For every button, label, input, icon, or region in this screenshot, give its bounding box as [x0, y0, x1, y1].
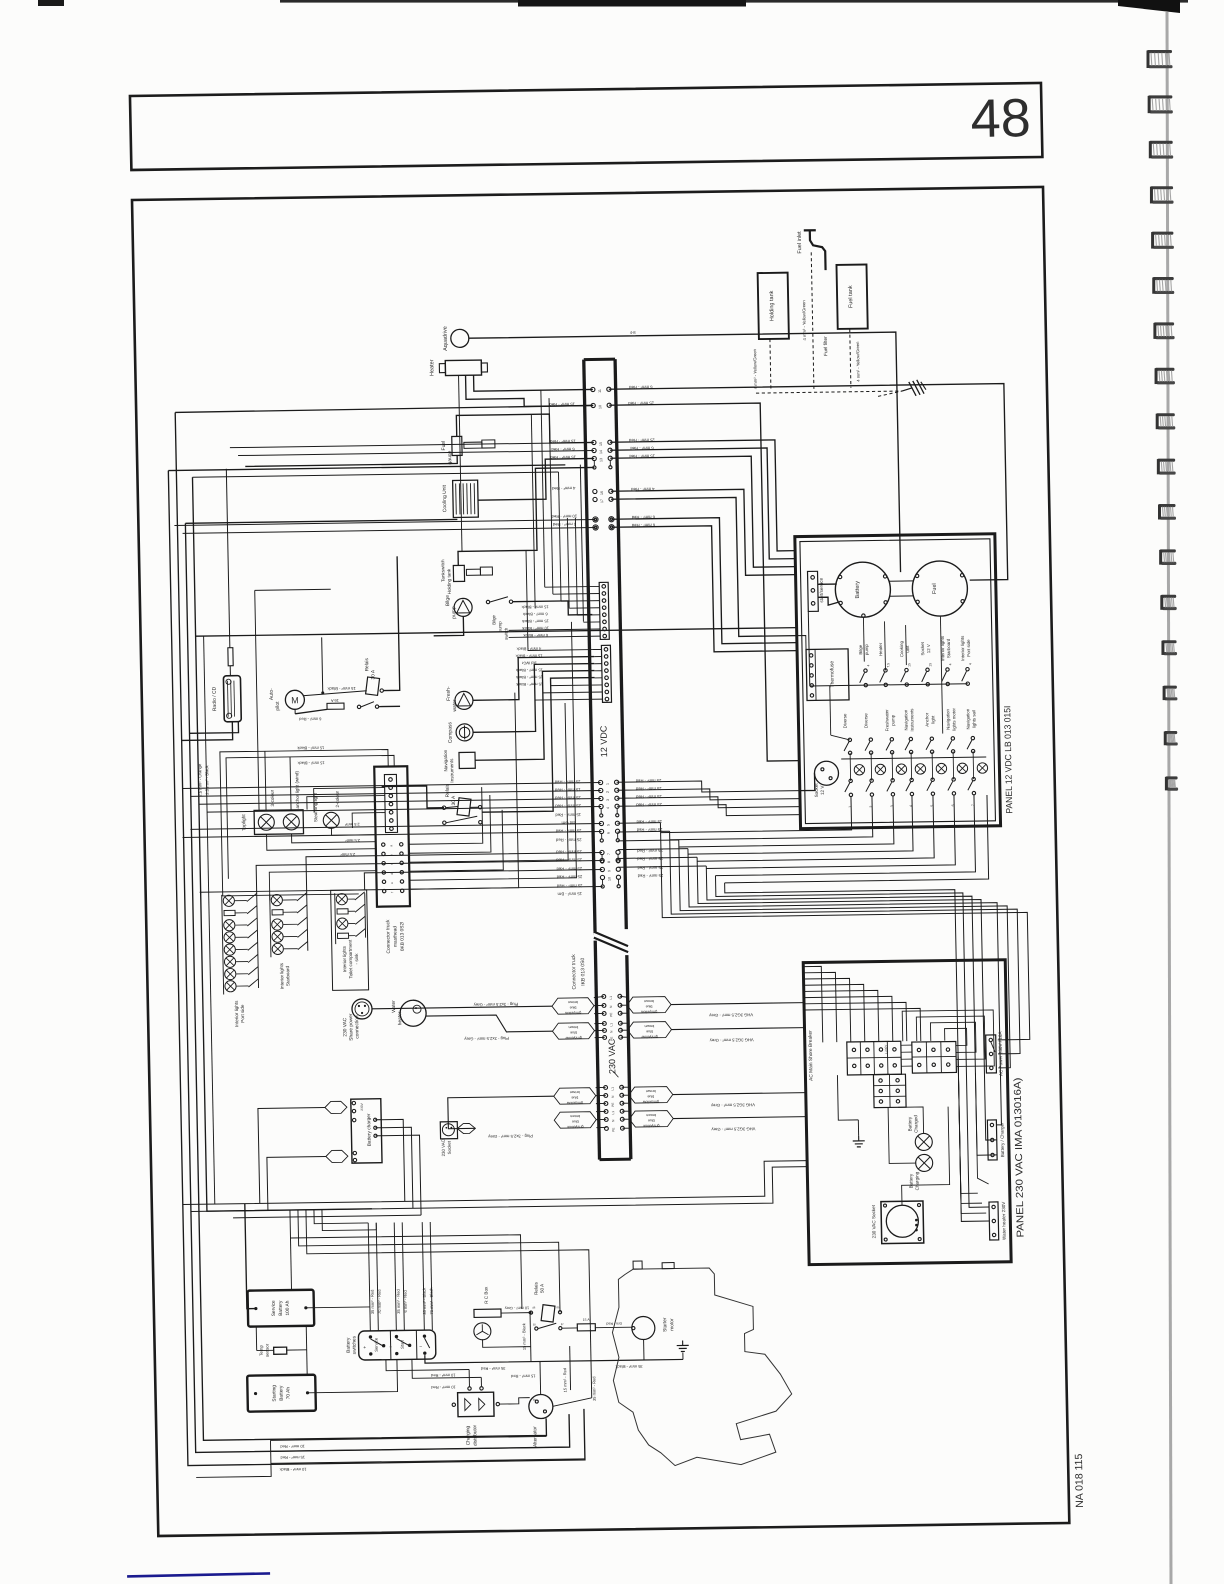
svg-text:230 VAC: 230 VAC [342, 1017, 348, 1036]
svg-text:L 230V: L 230V [884, 1045, 888, 1054]
svg-text:15 mm² - Black: 15 mm² - Black [516, 682, 543, 687]
panel upper switch bus [810, 684, 968, 686]
wire freshwater to strip [472, 657, 595, 701]
svg-text:blue: blue [571, 1095, 578, 1099]
svg-text:35 mm² - Red: 35 mm² - Red [481, 1366, 506, 1371]
svg-text:brown: brown [568, 1025, 578, 1029]
svg-text:70 Ah: 70 Ah [285, 1387, 291, 1400]
svg-text:Interior lights: Interior lights [279, 962, 285, 989]
wire bus16 right [611, 489, 796, 578]
autopilot switch [357, 705, 360, 708]
autopilot motor [285, 690, 304, 709]
svg-text:Fresh-: Fresh- [446, 686, 452, 701]
wire charger left 1 [258, 1107, 327, 1203]
relay 50A switch [535, 1327, 538, 1330]
wires socket panel [900, 1107, 950, 1206]
svg-text:Compass: Compass [447, 722, 453, 744]
svg-text:Battery: Battery [908, 1173, 913, 1188]
svg-text:Plug - 3x2.5 mm² - Grey: Plug - 3x2.5 mm² - Grey [463, 1036, 509, 1042]
temp sensor [274, 1347, 287, 1354]
masthead connector box [374, 766, 410, 906]
hex cable bus upper right 2 [627, 1022, 671, 1039]
svg-text:grn/yellow: grn/yellow [641, 1035, 658, 1039]
svg-text:12 V: 12 V [820, 785, 825, 795]
battery switches box [358, 1330, 436, 1360]
svg-text:230 VAC: 230 VAC [607, 1038, 618, 1074]
wire bus10 right bundle [609, 403, 799, 764]
wire row y524 tank [185, 519, 457, 523]
svg-text:6 mm² - Red: 6 mm² - Red [551, 447, 575, 452]
svg-text:VHG 3G2.5 mm² - Grey: VHG 3G2.5 mm² - Grey [711, 1126, 756, 1132]
svg-text:M: M [291, 695, 299, 705]
svg-text:16 A: 16 A [331, 698, 339, 703]
svg-text:5: 5 [930, 805, 934, 807]
svg-text:Freshwater: Freshwater [884, 709, 889, 732]
svg-text:masthead: masthead [392, 926, 398, 947]
svg-text:Navigation: Navigation [965, 708, 970, 729]
svg-text:2: 2 [869, 806, 873, 808]
bus break symbol [594, 931, 628, 952]
svg-text:std Grn: std Grn [561, 820, 575, 825]
wire heater to bus 11 [474, 373, 593, 391]
svg-text:15: 15 [907, 663, 911, 667]
svg-text:brown: brown [568, 1000, 578, 1004]
hex cable charger 1 [325, 1101, 347, 1113]
wire gauges link [889, 580, 914, 582]
svg-text:+: + [363, 1345, 366, 1351]
svg-text:15 mm² - Black: 15 mm² - Black [297, 745, 324, 750]
wire relay lower left [382, 786, 444, 809]
bus terminals lower [598, 780, 602, 784]
socket 230VAC panel [881, 1201, 924, 1244]
engine top notches [633, 1261, 642, 1269]
wire hex right 2 to panel [671, 1028, 804, 1030]
svg-text:Cooling Unit: Cooling Unit [442, 484, 449, 512]
terminal strip B [912, 1041, 957, 1073]
svg-text:1: 1 [848, 806, 852, 808]
diagram border frame [132, 187, 1069, 1536]
wire row n7 to starboard lights [306, 852, 603, 893]
wire socket feed [799, 773, 814, 790]
engine room fan [474, 1323, 491, 1340]
wire cooling unit to bus [477, 458, 595, 500]
wire autopilot bottom [294, 710, 296, 714]
wire water heater to bus hex [426, 1014, 552, 1033]
svg-text:Starboard: Starboard [285, 965, 290, 986]
svg-text:1: 1 [606, 783, 610, 785]
svg-text:10: 10 [607, 877, 611, 881]
wire bus13 right [610, 456, 795, 570]
svg-text:4: 4 [968, 663, 972, 665]
water heater [400, 1000, 427, 1026]
engine ground [682, 1340, 684, 1345]
steaming light lamp [323, 812, 339, 828]
wire RC box [501, 1312, 530, 1314]
tank switch holding tank [453, 565, 464, 581]
wire selector to battery gauge [818, 583, 837, 585]
hex cable bus lower left 1 [554, 1088, 596, 1105]
svg-text:std WGr: std WGr [521, 661, 536, 666]
svg-text:Relais: Relais [364, 657, 370, 671]
hex cable bus upper right 1 [627, 997, 671, 1014]
svg-text:10 mm² - Black: 10 mm² - Black [522, 626, 549, 631]
wire compass to strip [471, 664, 595, 733]
svg-text:Service: Service [271, 1300, 277, 1316]
wire masthead to right 3 [406, 693, 519, 890]
fuel hose dashed fuel inlet down [811, 252, 814, 390]
bus 230VAC column [595, 941, 599, 1160]
svg-text:NA 018 115: NA 018 115 [1073, 1453, 1086, 1507]
svg-text:Navigation: Navigation [443, 749, 448, 771]
svg-text:Interior lights: Interior lights [342, 945, 348, 972]
wire bilge switch to strip [513, 601, 592, 616]
wires lamps to masthead [267, 833, 376, 851]
aquadrive [451, 329, 469, 347]
svg-text:brown: brown [646, 1113, 656, 1117]
svg-text:Heater: Heater [429, 359, 435, 376]
vertical feeds to strip1 [541, 390, 545, 587]
svg-text:11: 11 [598, 389, 602, 393]
hex cable charger 2 [326, 1150, 348, 1162]
svg-text:7: 7 [971, 804, 975, 806]
svg-text:Connector truck: Connector truck [571, 954, 578, 990]
terminal strip C [873, 1074, 906, 1107]
fuse 16A autopilot [327, 703, 344, 709]
svg-text:7.5: 7.5 [886, 663, 890, 668]
svg-text:Bilge: Bilge [445, 595, 451, 606]
hex cable socket [457, 1123, 475, 1133]
interior lights feed wires [222, 894, 359, 896]
svg-text:2: 2 [606, 791, 610, 793]
wire hex lower right 1 to panel [673, 1093, 806, 1095]
wire row y478 [192, 472, 558, 477]
svg-text:6 mm² - Black: 6 mm² - Black [523, 612, 548, 617]
service battery [248, 1290, 315, 1327]
svg-text:15 mm² - Black: 15 mm² - Black [522, 619, 549, 624]
svg-text:Holding tank: Holding tank [446, 568, 452, 594]
svg-text:35 mm² - Black: 35 mm² - Black [616, 1364, 643, 1369]
wire heater aux down [459, 375, 462, 551]
water heater strip [989, 1202, 999, 1240]
svg-text:Socket: Socket [920, 641, 925, 655]
svg-text:B+: B+ [533, 1398, 537, 1402]
svg-text:brown: brown [646, 1089, 656, 1093]
svg-text:distributor: distributor [472, 1424, 478, 1446]
svg-text:4 mm² - Yellow/Green: 4 mm² - Yellow/Green [855, 341, 861, 382]
scanner top edge marks [38, 0, 64, 6]
fuel hose dashed fuel tank down [850, 329, 851, 388]
toplight lamp [258, 814, 274, 830]
wire hex lower left 2 to socket [475, 1120, 554, 1128]
bus terminals double pair [593, 517, 598, 522]
svg-text:15 mm² - Red: 15 mm² - Red [554, 787, 580, 792]
svg-text:switches: switches [351, 1335, 357, 1354]
svg-text:12 VDC: 12 VDC [598, 725, 609, 757]
radio/CD [223, 676, 241, 722]
svg-text:grn/yellow: grn/yellow [567, 1125, 584, 1129]
svg-text:pump: pump [864, 644, 869, 656]
svg-text:Aquadrive: Aquadrive [443, 326, 449, 351]
svg-text:25 mm² - Red: 25 mm² - Red [635, 794, 661, 799]
wire row n8 to port lights [256, 860, 603, 894]
compass [456, 724, 473, 741]
svg-text:4 mm² - Yellow/Green: 4 mm² - Yellow/Green [801, 300, 807, 341]
hex cable bus lower right 1 [629, 1087, 673, 1104]
svg-text:4 mm² - Black: 4 mm² - Black [517, 646, 542, 651]
wire row to bus 10 [175, 405, 593, 412]
svg-text:Radio / CD: Radio / CD [212, 686, 218, 711]
svg-text:f: f [390, 892, 394, 893]
svg-text:16: 16 [600, 491, 604, 495]
svg-text:brown: brown [644, 999, 654, 1003]
svg-text:Water heater 230V: Water heater 230V [1001, 1201, 1007, 1240]
wire radio feed up [226, 469, 230, 648]
svg-text:10 mm² - Red: 10 mm² - Red [551, 514, 577, 519]
svg-text:230V: 230V [360, 1102, 364, 1110]
svg-text:AC Main Shore Breaker: AC Main Shore Breaker [808, 1030, 815, 1081]
svg-text:Battery: Battery [907, 1116, 912, 1131]
wire row 457 left long [238, 450, 594, 455]
toplight box [254, 810, 303, 835]
svg-text:4 mm² - Yellow/Green: 4 mm² - Yellow/Green [752, 348, 758, 389]
interior lights starboard column [270, 894, 271, 957]
wire autopilot area vertical [250, 590, 259, 810]
RC box [474, 1309, 501, 1317]
page number box [130, 83, 1042, 170]
wire relay to fuse [562, 1327, 577, 1329]
svg-text:Battery charger: Battery charger [366, 1113, 373, 1146]
svg-text:10 mm² - Black: 10 mm² - Black [280, 1467, 307, 1472]
panel230 internal loops right [901, 1044, 912, 1046]
wire fuel gauge feed [245, 455, 457, 466]
svg-text:15 mm² - Black: 15 mm² - Black [298, 760, 325, 765]
heater [445, 360, 481, 376]
fuse 15A starter [577, 1324, 595, 1331]
wire service battery to switch [306, 1306, 370, 1309]
svg-text:6: 6 [607, 832, 611, 834]
wire trunk left 2 [168, 465, 585, 1466]
svg-text:grn/yellow: grn/yellow [566, 1101, 583, 1105]
svg-text:6: 6 [951, 804, 955, 806]
svg-text:15 mm² - Red: 15 mm² - Red [549, 402, 575, 407]
svg-text:Charged: Charged [913, 1115, 918, 1133]
svg-text:15 mm² - Brn: 15 mm² - Brn [557, 891, 582, 896]
svg-text:Relais: Relais [445, 783, 451, 797]
svg-text:4: 4 [866, 665, 870, 667]
svg-text:15: 15 [928, 663, 932, 667]
wire starting battery to switch [307, 1360, 398, 1393]
battery gauge [835, 562, 891, 618]
socket 230VAC small [440, 1122, 457, 1139]
wire bilge pump down [433, 616, 463, 635]
holding tank [758, 273, 789, 339]
battery charging lamp [916, 1154, 933, 1171]
wire thermofuse feed [797, 635, 806, 649]
svg-text:15: 15 [599, 442, 603, 446]
svg-text:Service: Service [373, 1337, 378, 1352]
wire bus11 right long to panel top [609, 384, 1008, 586]
svg-text:+: + [389, 1345, 392, 1351]
svg-text:25 mm² - Red: 25 mm² - Red [555, 837, 581, 842]
wires into connector strip 2 [593, 648, 602, 650]
svg-text:Cooking: Cooking [899, 640, 904, 657]
svg-text:Plug - 3x2.5 mm² - Grey: Plug - 3x2.5 mm² - Grey [473, 1002, 519, 1008]
blue pen underline [127, 1573, 270, 1576]
svg-text:13: 13 [599, 458, 603, 462]
wire fuse to starter [595, 1326, 632, 1329]
masthead inner strip [384, 774, 397, 832]
connector strip 2 [601, 645, 611, 702]
svg-text:12 V: 12 V [926, 644, 931, 653]
panel lower bus line [841, 757, 986, 759]
battery charged lamp [915, 1133, 932, 1150]
svg-text:Fuel: Fuel [932, 583, 938, 594]
panel230 internal feed loops [803, 966, 822, 1042]
svg-text:AC Power 230V / 16A: AC Power 230V / 16A [998, 1031, 1004, 1077]
svg-text:- sink: - sink [354, 953, 359, 965]
wire relay up [558, 1206, 560, 1312]
wire relay lower to strip [480, 678, 598, 813]
svg-text:Plug - 3x2.5 mm² - Grey: Plug - 3x2.5 mm² - Grey [487, 1134, 533, 1140]
svg-text:Connector truck: Connector truck [385, 919, 392, 954]
wire service battery left [247, 1308, 256, 1310]
svg-text:b: b [389, 854, 393, 856]
svg-text:Share power: Share power [348, 1013, 355, 1041]
svg-text:connection: connection [354, 1015, 360, 1039]
svg-text:3-colour: 3-colour [270, 789, 275, 806]
fuel gauge [452, 436, 462, 455]
wire autopilot junction up [322, 637, 323, 693]
wire hex lower right 2 to panel [673, 1117, 806, 1119]
svg-text:PE: PE [611, 1128, 615, 1132]
svg-text:Start: Start [400, 1339, 405, 1349]
svg-text:2.5 mm²: 2.5 mm² [340, 852, 355, 857]
wire start switch to distributor 2 [412, 1358, 481, 1378]
svg-text:25 mm² - Red: 25 mm² - Red [555, 849, 581, 854]
terminal strip A [847, 1041, 902, 1075]
wires lamps [898, 1107, 924, 1133]
svg-text:230 VAC Socket: 230 VAC Socket [871, 1204, 877, 1238]
svg-text:blue: blue [570, 1030, 577, 1034]
wire row n10 left [200, 886, 603, 892]
fuel gauge dial [912, 561, 968, 617]
svg-text:15 mm² - Black: 15 mm² - Black [327, 686, 356, 691]
svg-text:Charging: Charging [914, 1171, 919, 1190]
svg-text:15 mm² - Red: 15 mm² - Red [549, 439, 575, 444]
panel lower switch assembly [848, 738, 851, 741]
fuel hose dashed horizontal to ground [756, 391, 902, 393]
svg-text:blue: blue [646, 1004, 653, 1008]
svg-text:25 mm² - Red: 25 mm² - Red [554, 779, 580, 784]
svg-text:4: 4 [606, 807, 610, 809]
svg-text:4 mm² - Red: 4 mm² - Red [551, 486, 575, 491]
wire temp sensor [255, 1327, 257, 1351]
svg-text:25 mm² - Red: 25 mm² - Red [637, 856, 663, 861]
wire row 449 left long [230, 443, 550, 448]
wire hex right 1 to panel [671, 1003, 804, 1005]
svg-text:L1: L1 [609, 1023, 613, 1027]
svg-text:15 mm² - Red: 15 mm² - Red [550, 455, 576, 460]
svg-text:Battery: Battery [855, 581, 861, 599]
svg-text:3: 3 [890, 805, 894, 807]
wire starter down [643, 1340, 645, 1360]
svg-text:15 mm² - Red: 15 mm² - Red [511, 1374, 536, 1379]
svg-text:pump: pump [497, 621, 502, 633]
svg-text:lights sail: lights sail [971, 710, 976, 728]
anchor light lamp [283, 814, 299, 830]
svg-text:0KB 013 0S2I: 0KB 013 0S2I [399, 921, 406, 951]
svg-text:water: water [452, 699, 458, 712]
svg-text:Relais: Relais [533, 1281, 538, 1295]
svg-text:10: 10 [598, 405, 602, 409]
wire double pair right 2 [612, 525, 797, 654]
wire row 526 long [174, 519, 595, 525]
svg-text:25 mm² - Red: 25 mm² - Red [636, 802, 662, 807]
svg-text:Heater: Heater [878, 642, 883, 656]
wire distributor to alternator [500, 1398, 530, 1404]
panel 12VDC box [795, 534, 1001, 829]
svg-text:VHG 3G2.5 mm² - Grey: VHG 3G2.5 mm² - Grey [708, 1012, 753, 1018]
svg-text:15 mm² - Black: 15 mm² - Black [521, 1323, 527, 1350]
wires into connector strip 1 [545, 585, 600, 588]
svg-text:6 mm² - Red: 6 mm² - Red [552, 522, 576, 527]
wire trunk left 4 [192, 475, 371, 1211]
svg-text:10 mm² - Grey: 10 mm² - Grey [505, 1306, 530, 1310]
wire row y637 long [196, 628, 797, 637]
svg-text:Starter: Starter [662, 1317, 668, 1332]
svg-text:Toilet compartment: Toilet compartment [348, 939, 354, 979]
wire bus14 right bundle [610, 448, 795, 562]
wires toplight box feeds up [265, 751, 266, 810]
svg-text:VHG 3G2.5 mm² - Grey: VHG 3G2.5 mm² - Grey [709, 1037, 754, 1043]
wire radio out 2 [189, 722, 238, 734]
svg-text:brown: brown [570, 1114, 580, 1118]
svg-text:Instruments: Instruments [909, 708, 914, 732]
battery area nested connectors [290, 1238, 291, 1290]
svg-text:R C Box: R C Box [483, 1286, 488, 1304]
fuel inlet pipe [804, 229, 816, 231]
wire fuel gauge to bus [456, 413, 594, 444]
connector strip masthead feed [599, 582, 609, 639]
svg-text:15 mm² - Black: 15 mm² - Black [516, 668, 543, 673]
svg-text:blue: blue [572, 1119, 579, 1123]
svg-text:25 mm² - Red: 25 mm² - Red [556, 866, 582, 871]
svg-text:blue: blue [646, 1029, 653, 1033]
svg-text:Fuel inlet: Fuel inlet [797, 231, 803, 254]
svg-text:25 mm² - Red: 25 mm² - Red [637, 865, 663, 870]
svg-text:VHG 3G2.5 mm² - Grey: VHG 3G2.5 mm² - Grey [710, 1102, 755, 1108]
svg-text:2.5 mm²: 2.5 mm² [345, 838, 360, 843]
svg-text:Instruments: Instruments [449, 758, 454, 783]
wire nested staircase bundle [617, 822, 660, 825]
svg-text:Fuel: Fuel [441, 441, 447, 451]
svg-text:4: 4 [948, 663, 952, 665]
bus terminals 230vac upper [602, 995, 606, 999]
wire start switch to distributor 1 [386, 1359, 469, 1371]
battery charger box [351, 1099, 382, 1163]
230VAC shore power connection [352, 999, 372, 1019]
svg-text:blue: blue [570, 1005, 577, 1009]
svg-text:L1: L1 [611, 1111, 615, 1115]
svg-text:17: 17 [600, 499, 604, 503]
start/service selector [808, 571, 819, 611]
svg-text:L1: L1 [609, 996, 613, 1000]
wire autopilot switch right [379, 705, 400, 707]
svg-text:Starboard: Starboard [946, 638, 951, 658]
svg-text:Port side: Port side [966, 639, 971, 657]
thermofuse [806, 649, 849, 701]
hex cable bus upper left 2 [552, 1023, 594, 1040]
